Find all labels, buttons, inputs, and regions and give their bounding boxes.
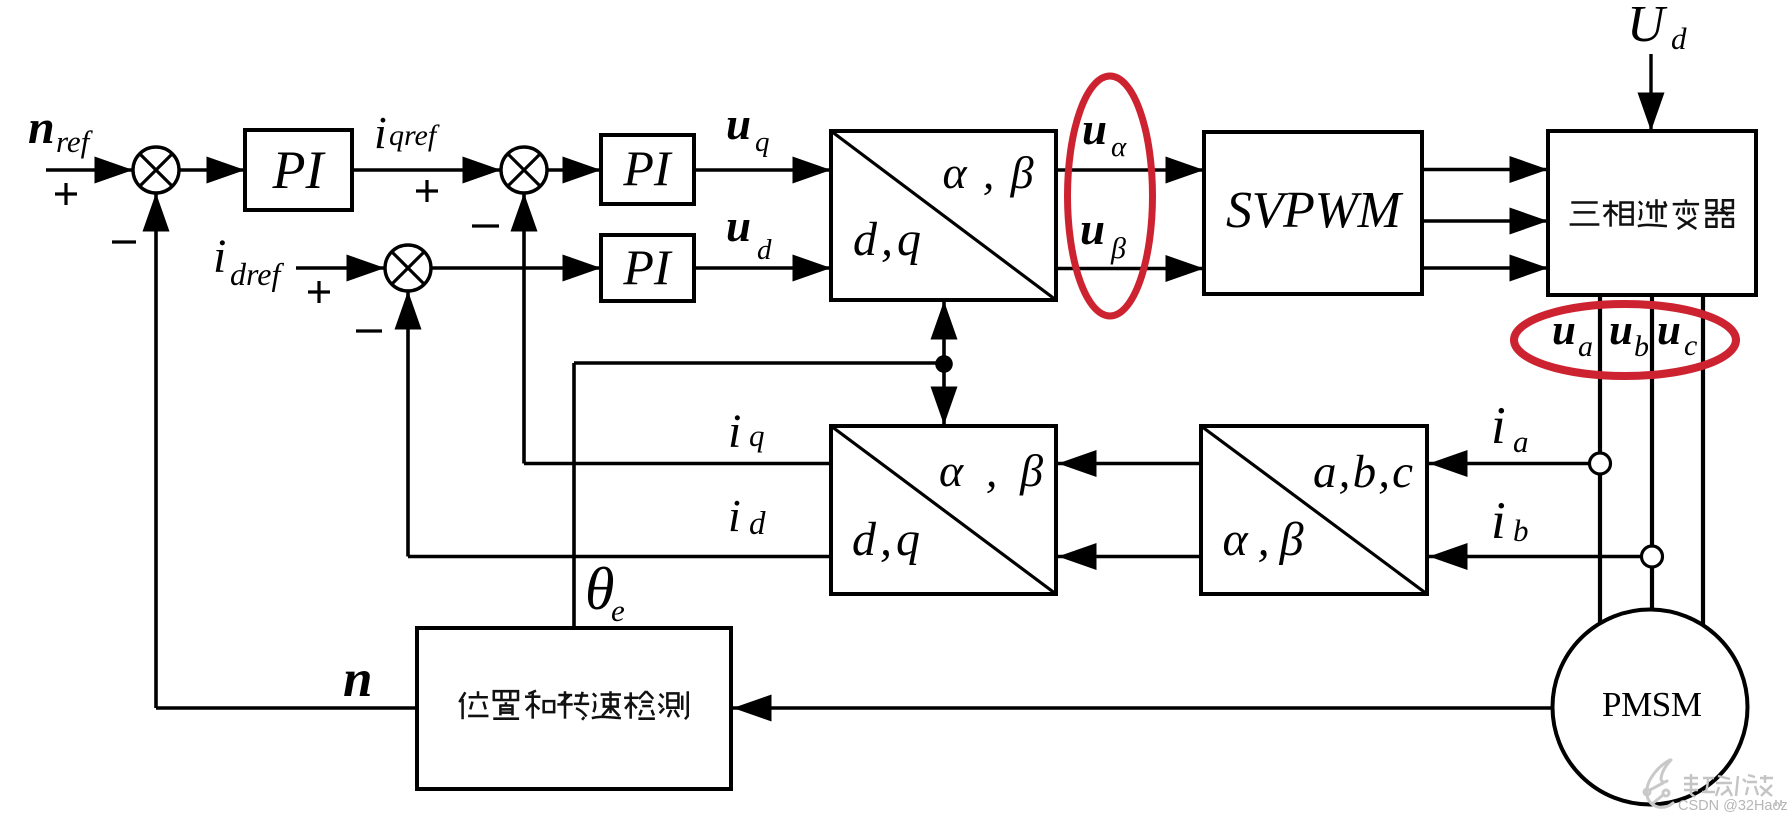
svg-text:PMSM: PMSM: [1602, 685, 1702, 724]
svg-text:a: a: [1513, 424, 1529, 459]
svg-text:u: u: [1657, 307, 1681, 354]
svg-text:PI: PI: [272, 140, 327, 200]
svg-text:u: u: [1080, 204, 1105, 254]
svg-text:n: n: [28, 101, 55, 154]
svg-text:c: c: [1684, 329, 1697, 362]
svg-text:a,b,c: a,b,c: [1313, 446, 1413, 498]
svg-text:β: β: [1110, 232, 1126, 265]
svg-text:u: u: [726, 201, 751, 251]
svg-text:d,q: d,q: [853, 213, 921, 266]
svg-text:PI: PI: [622, 239, 673, 295]
svg-text:α,β: α,β: [939, 445, 1043, 496]
svg-text:ref: ref: [56, 124, 94, 159]
svg-text:d: d: [757, 234, 772, 266]
svg-text:i: i: [1491, 397, 1506, 455]
svg-text:q: q: [749, 418, 765, 453]
svg-text:qref: qref: [389, 119, 440, 152]
svg-text:u: u: [726, 99, 751, 149]
svg-text:U: U: [1627, 0, 1668, 53]
svg-text:u: u: [1609, 307, 1633, 354]
svg-text:u: u: [1082, 104, 1107, 154]
svg-text:i: i: [1491, 492, 1506, 550]
svg-text:d,q: d,q: [852, 513, 920, 566]
svg-text:i: i: [374, 107, 387, 158]
svg-text:i: i: [728, 405, 741, 458]
svg-text:d: d: [749, 506, 766, 542]
svg-text:a: a: [1578, 330, 1593, 363]
svg-text:α: α: [1111, 131, 1127, 163]
svg-text:d: d: [1671, 21, 1687, 56]
svg-text:PI: PI: [622, 140, 673, 196]
svg-text:SVPWM: SVPWM: [1226, 182, 1404, 239]
svg-text:b: b: [1634, 330, 1649, 363]
svg-text:CSDN @32Haozi: CSDN @32Haozi: [1678, 798, 1787, 814]
svg-text:n: n: [343, 650, 372, 708]
svg-text:u: u: [1552, 307, 1576, 354]
svg-text:α,β: α,β: [943, 147, 1034, 198]
svg-text:q: q: [755, 126, 770, 158]
svg-text:α,β: α,β: [1223, 513, 1304, 566]
svg-text:e: e: [611, 593, 625, 628]
svg-text:b: b: [1513, 513, 1529, 548]
svg-text:i: i: [728, 490, 741, 541]
svg-text:i: i: [213, 230, 226, 283]
svg-text:dref: dref: [230, 256, 284, 292]
